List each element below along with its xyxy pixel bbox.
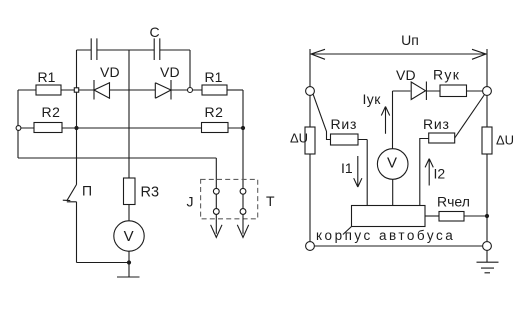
ground (left circuit) — [117, 276, 140, 278]
svg-text:Iук: Iук — [363, 91, 382, 107]
korpus leader line — [343, 227, 352, 235]
svg-text:Rук: Rук — [433, 66, 460, 82]
svg-text:Rиз: Rиз — [423, 116, 450, 132]
wire left slant to Riz — [313, 94, 330, 139]
resistor Ruk — [440, 85, 467, 97]
capacitor C1 — [91, 38, 97, 60]
svg-text:R1: R1 — [38, 69, 56, 85]
wire bottom right circuit — [314, 245, 482, 247]
connector pin T circles — [240, 188, 246, 194]
wire Riz-left to drop — [358, 140, 367, 206]
diode VD1 (left, pointing left) — [93, 80, 95, 100]
node square left diode row — [74, 88, 78, 92]
svg-text:R2: R2 — [42, 104, 61, 120]
svg-text:П: П — [82, 182, 92, 198]
resistor R1 (right) — [202, 85, 227, 95]
resistor R2 (right) — [202, 123, 229, 133]
wire right slant to node — [455, 95, 485, 138]
connector pin J circles — [213, 188, 219, 194]
connector pin J arrow — [211, 225, 222, 238]
svg-text:C: C — [150, 24, 160, 40]
wire right circuit left riser — [309, 49, 311, 241]
wire between diodes — [110, 89, 155, 91]
connector pin T line — [242, 194, 244, 234]
svg-text:I2: I2 — [434, 166, 446, 182]
svg-text:VD: VD — [160, 64, 180, 80]
resistor dU (left) — [305, 127, 315, 154]
capacitor C2 — [154, 38, 160, 60]
wire voltmeter to ground — [128, 251, 130, 277]
svg-text:R1: R1 — [205, 69, 223, 85]
dimension arrow left — [311, 49, 325, 59]
svg-text:R2: R2 — [205, 104, 224, 120]
junction dot R2-right vertical — [241, 126, 245, 130]
wire right Riz drop — [420, 139, 429, 206]
ground (right circuit) — [477, 251, 499, 273]
korpus box — [352, 206, 426, 227]
wire diode to R1-right — [171, 89, 202, 91]
svg-text:T: T — [266, 193, 275, 209]
node circle left top — [306, 87, 315, 96]
node circle right diode row — [188, 88, 193, 93]
wire R2 row — [21, 127, 243, 129]
wire R1-right to corner — [227, 89, 243, 91]
junction dot ground wire — [127, 260, 131, 264]
wire bottom horizontal left circuit — [18, 157, 216, 159]
resistor R1 (left) — [36, 85, 61, 95]
wire Rchel to right riser — [464, 215, 487, 217]
voltmeter PV2 — [377, 149, 408, 180]
node circle R2 left terminal — [16, 126, 21, 131]
wire R3 to voltmeter — [128, 205, 130, 221]
svg-text:V: V — [387, 155, 397, 172]
dimension arrow right — [472, 49, 486, 59]
current arrow Iuk — [381, 107, 389, 134]
dimension line Up — [310, 53, 487, 55]
connector pin T arrow — [237, 225, 248, 238]
svg-text:V: V — [124, 228, 134, 245]
wire diode row right circuit — [393, 90, 483, 92]
resistor Riz (left) — [331, 134, 359, 145]
svg-text:Uп: Uп — [401, 32, 419, 48]
svg-text:VD: VD — [100, 64, 120, 80]
svg-text:I1: I1 — [341, 160, 353, 176]
resistor Rchel — [439, 212, 464, 222]
wire left vertical — [17, 90, 19, 158]
svg-text:Rчел: Rчел — [437, 194, 470, 210]
diode VD2 (right, pointing right) — [155, 83, 171, 99]
resistor R2 (left) — [34, 123, 62, 133]
svg-text:R3: R3 — [141, 184, 160, 200]
voltmeter PV1 — [114, 221, 144, 251]
wire voltmeter riser — [392, 91, 394, 149]
svg-text:VD: VD — [396, 67, 416, 83]
wire right vertical — [242, 90, 244, 188]
current arrow I1 — [354, 156, 362, 187]
resistor R3 — [124, 178, 136, 205]
svg-text:корпус автобуса: корпус автобуса — [316, 228, 455, 243]
wire right cap drop — [189, 50, 191, 90]
resistor dU (right) — [482, 127, 492, 154]
svg-text:ΔU: ΔU — [290, 131, 308, 146]
node circle left bottom — [306, 242, 315, 251]
svg-text:J: J — [187, 194, 194, 210]
wire R1-left lead — [18, 89, 36, 91]
current arrow I2 — [425, 159, 433, 186]
switch P blade — [67, 185, 77, 201]
resistor Riz (right) — [429, 133, 455, 143]
junction dot R2-x76 — [74, 126, 78, 130]
connector pin J line — [215, 158, 217, 234]
junction dot Rchel — [485, 214, 489, 218]
wire voltmeter to korpus box — [392, 179, 394, 205]
svg-text:ΔU: ΔU — [496, 133, 514, 148]
wire switch bottom horizontal — [77, 262, 130, 264]
wire vertical x76 — [76, 50, 78, 185]
diode VD3 (pointing right) — [411, 82, 425, 100]
node circle right bottom — [483, 242, 492, 251]
node circle right top — [483, 87, 492, 96]
wire korpus to Rchel — [425, 215, 439, 217]
switch P contact tick — [63, 199, 71, 201]
wire R1 to diode — [61, 89, 94, 91]
connector dashed box J/T — [201, 179, 258, 218]
wire central vertical — [128, 50, 130, 178]
wire right circuit right riser — [486, 49, 488, 241]
wire capacitor row — [77, 49, 191, 51]
svg-text:Rиз: Rиз — [331, 116, 358, 132]
switch P jog wire — [67, 202, 77, 263]
